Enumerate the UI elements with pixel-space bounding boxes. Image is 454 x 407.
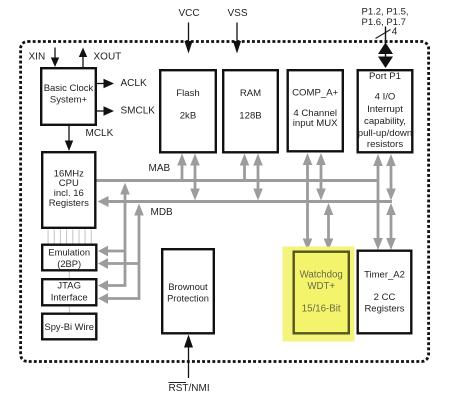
signal arrow MCLK bbox=[65, 126, 73, 151]
svg-text:Basic Clock: Basic Clock bbox=[44, 83, 94, 94]
pin arrow XOUT bbox=[79, 48, 87, 68]
dashed device boundary bbox=[21, 42, 429, 362]
svg-text:2 CC: 2 CC bbox=[374, 292, 396, 303]
svg-text:input MUX: input MUX bbox=[293, 118, 338, 129]
wire COMP_A+ to MDB bbox=[316, 153, 326, 201]
svg-text:ACLK: ACLK bbox=[121, 78, 147, 89]
svg-text:P1.2, P1.5,: P1.2, P1.5, bbox=[362, 7, 409, 18]
highlight watchdog yellow marker bbox=[283, 247, 355, 342]
svg-text:JTAG: JTAG bbox=[57, 281, 81, 292]
svg-text:capability,: capability, bbox=[364, 116, 406, 127]
svg-text:Registers: Registers bbox=[364, 304, 404, 315]
svg-text:MAB: MAB bbox=[149, 163, 171, 174]
wire MAB branch to Emulation and JTAG bbox=[98, 183, 130, 291]
svg-text:15/16-Bit: 15/16-Bit bbox=[302, 304, 341, 315]
svg-text:MDB: MDB bbox=[151, 207, 174, 218]
wire MAB to Flash bbox=[177, 154, 187, 182]
signal arrow ACLK bbox=[97, 79, 115, 89]
port P1 bidirectional arrow bbox=[378, 27, 393, 69]
svg-text:Emulation: Emulation bbox=[48, 246, 90, 257]
svg-text:Timer_A2: Timer_A2 bbox=[364, 270, 405, 281]
svg-text:(2BP): (2BP) bbox=[57, 258, 81, 269]
svg-text:Flash: Flash bbox=[176, 88, 199, 99]
wire Emulation to JTAG bbox=[68, 271, 70, 278]
bus width slash bbox=[376, 30, 391, 39]
svg-text:128B: 128B bbox=[239, 111, 261, 122]
bus MDB bbox=[98, 196, 393, 207]
svg-text:XIN: XIN bbox=[29, 52, 46, 63]
svg-text:XOUT: XOUT bbox=[94, 52, 122, 63]
block Basic Clock System+ bbox=[41, 68, 96, 125]
wire MDB to Watchdog bbox=[324, 203, 334, 251]
svg-text:MCLK: MCLK bbox=[86, 128, 114, 139]
svg-text:4: 4 bbox=[392, 27, 398, 38]
svg-text:2kB: 2kB bbox=[180, 111, 197, 122]
svg-text:Interrupt: Interrupt bbox=[367, 104, 403, 115]
svg-text:pull-up/down: pull-up/down bbox=[358, 128, 412, 139]
block Port P1 bbox=[358, 70, 413, 152]
wire Port P1 to MDB bbox=[386, 154, 396, 201]
svg-text:Protection: Protection bbox=[167, 294, 209, 304]
wire MAB to RAM bbox=[240, 154, 250, 182]
svg-text:Interface: Interface bbox=[51, 293, 88, 304]
wire RAM to MDB bbox=[253, 154, 263, 201]
wires CPU to Emulation bbox=[48, 230, 91, 244]
pin arrow RST/NMI bbox=[184, 335, 193, 379]
wire MDB to Timer_A2 bbox=[386, 203, 396, 250]
wire JTAG to Spy-Bi-Wire bbox=[68, 306, 70, 313]
pin arrow XIN bbox=[51, 48, 59, 68]
block RAM 128B bbox=[223, 70, 278, 152]
svg-text:VSS: VSS bbox=[227, 8, 247, 19]
wire Port P1 to Timer_A2 via MAB bbox=[373, 154, 383, 250]
svg-text:resistors: resistors bbox=[367, 139, 403, 150]
block Watchdog WDT+ bbox=[294, 252, 349, 334]
signal arrow SMCLK bbox=[97, 106, 115, 116]
block Spy-Bi-Wire bbox=[42, 314, 96, 340]
wire MDB branch to Emulation and JTAG bbox=[98, 204, 144, 304]
wire Flash to MDB bbox=[190, 154, 200, 201]
block COMP_A+ bbox=[288, 70, 343, 151]
block JTAG Interface bbox=[42, 279, 96, 305]
svg-text:RAM: RAM bbox=[240, 88, 261, 99]
block Flash 2kB bbox=[160, 70, 216, 152]
svg-text:Registers: Registers bbox=[49, 198, 89, 209]
svg-text:Brownout: Brownout bbox=[168, 282, 208, 292]
svg-text:P1.6, P1.7: P1.6, P1.7 bbox=[362, 17, 406, 28]
svg-text:System+: System+ bbox=[50, 95, 88, 106]
block Emulation (2BP) bbox=[42, 245, 96, 271]
wire COMP_A+ to Watchdog via MAB bbox=[303, 153, 313, 251]
svg-text:4 I/O: 4 I/O bbox=[375, 92, 396, 103]
pin arrow VSS bbox=[233, 23, 241, 54]
block Brownout Protection bbox=[162, 249, 214, 333]
svg-text:COMP_A+: COMP_A+ bbox=[292, 88, 339, 99]
svg-text:SMCLK: SMCLK bbox=[121, 106, 156, 117]
svg-text:RST/NMI: RST/NMI bbox=[169, 383, 210, 394]
svg-text:VCC: VCC bbox=[178, 8, 199, 19]
svg-text:Watchdog: Watchdog bbox=[300, 270, 343, 281]
block CPU bbox=[42, 152, 95, 228]
svg-text:WDT+: WDT+ bbox=[307, 281, 335, 292]
svg-text:Port P1: Port P1 bbox=[369, 71, 401, 82]
svg-text:Spy-Bi Wire: Spy-Bi Wire bbox=[44, 321, 93, 332]
label RST/NMI with overline bbox=[169, 383, 210, 395]
bus MAB bbox=[97, 179, 379, 182]
block Timer_A2 bbox=[358, 251, 412, 334]
pin arrow VCC bbox=[184, 23, 192, 54]
